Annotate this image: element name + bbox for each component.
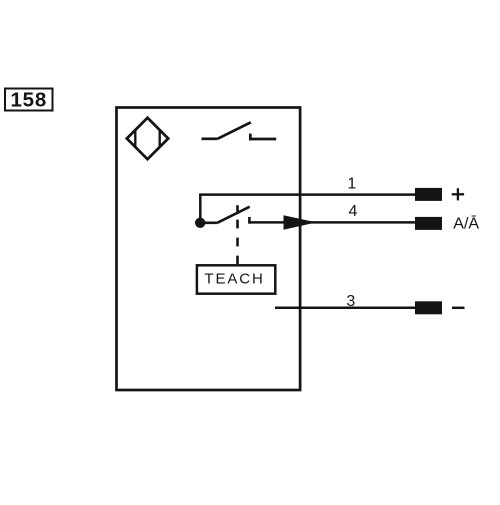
terminal pin 4 (415, 217, 442, 230)
TEACH box (197, 265, 275, 293)
wire: pin 3 (275, 306, 416, 309)
svg-text:158: 158 (10, 89, 47, 112)
teach switch S2 fixed contact (248, 217, 251, 224)
label + (plus) (452, 188, 464, 200)
terminal pin 1 (415, 188, 442, 201)
wire: node to pin 1 terminal (200, 195, 415, 223)
output switch contact S1 (202, 122, 277, 140)
dashed actuation link tick (236, 205, 239, 214)
label - (minus) (452, 307, 465, 310)
junction node (195, 218, 205, 228)
svg-text:TEACH: TEACH (204, 270, 264, 287)
svg-text:3: 3 (346, 293, 355, 310)
svg-text:4: 4 (349, 203, 358, 220)
figure number box 158 (5, 89, 53, 112)
arrowhead on pin 4 wire (284, 215, 317, 229)
sensor body outline (117, 108, 301, 391)
teach switch S2 arm (200, 207, 250, 223)
svg-text:A/Ā: A/Ā (453, 214, 479, 232)
terminal pin 3 (415, 301, 442, 314)
proximity sensor symbol U1 (diamond) (127, 118, 168, 159)
svg-text:1: 1 (347, 175, 356, 192)
dashed actuation link (236, 220, 239, 264)
wire: pin 4 output (249, 221, 415, 224)
